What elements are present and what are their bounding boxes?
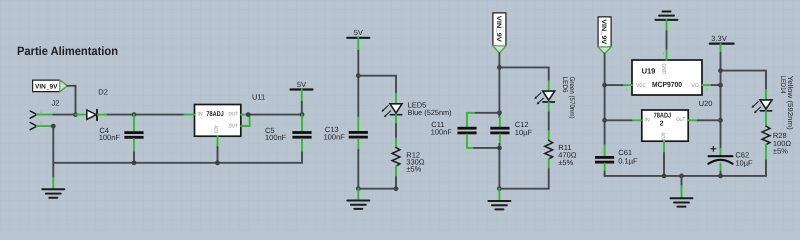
- ground GND J2: [52, 177, 54, 189]
- svg-text:0.1µF: 0.1µF: [618, 156, 638, 165]
- junction (499.4,112.8): [497, 110, 502, 115]
- resistor R28: [762, 126, 791, 160]
- svg-text:5V: 5V: [354, 28, 363, 37]
- wire rail section3: [499, 188, 548, 190]
- junction (396,188.7): [394, 186, 399, 191]
- junction (664,175.9): [662, 174, 667, 179]
- LED14: [752, 76, 796, 130]
- junction (499.4,188.7): [497, 186, 502, 191]
- wire C11 bottom to junction: [474, 147, 499, 149]
- svg-text:Blue (525nm): Blue (525nm): [408, 108, 452, 117]
- junction (358.3,75.7): [356, 73, 361, 78]
- junction (720.5,175.9): [718, 174, 723, 179]
- wire LED6 to R11: [548, 113, 550, 132]
- wire VIN_9V to node: [67, 86, 75, 115]
- LED6: [534, 77, 575, 119]
- LED5: [382, 94, 453, 124]
- resistor R12: [392, 138, 425, 177]
- svg-text:IN: IN: [197, 112, 202, 118]
- svg-text:10µF: 10µF: [735, 159, 753, 168]
- wire branch to LED5: [358, 76, 396, 94]
- svg-text:LED6: LED6: [561, 77, 568, 93]
- wire branch to LED14: [721, 71, 767, 90]
- wire C13 branch down: [357, 76, 359, 118]
- junction (53.3,126.1): [51, 124, 56, 129]
- svg-text:±5%: ±5%: [773, 147, 788, 156]
- wire R12 to rail: [395, 177, 397, 189]
- wire U20 OUT: [698, 119, 721, 121]
- wire U20 ADJ down: [663, 153, 665, 176]
- wire 5V to junction: [357, 51, 359, 76]
- svg-text:VO: VO: [691, 83, 699, 89]
- wire 3.3V down to C62: [720, 53, 722, 149]
- svg-text:100nF: 100nF: [431, 127, 453, 136]
- svg-text:MCP9700: MCP9700: [652, 80, 682, 89]
- capacitor C12: [490, 117, 532, 144]
- svg-text:5V: 5V: [297, 80, 306, 89]
- svg-text:OUT: OUT: [676, 117, 686, 123]
- sensor U19 MCP9700: [623, 51, 712, 96]
- wire flag down: [604, 54, 606, 146]
- capacitor C4: [99, 115, 144, 163]
- capacitor C13: [324, 118, 368, 189]
- wire down to C11/C12: [498, 67, 500, 117]
- wire VCC to flag line: [605, 84, 623, 86]
- svg-text:78ADJ: 78ADJ: [206, 111, 223, 118]
- junction (681.5,175.9): [679, 174, 684, 179]
- svg-text:100nF: 100nF: [99, 133, 121, 142]
- svg-text:78ADJ: 78ADJ: [654, 113, 672, 120]
- global label VIN_9V (vertical, section 4): [598, 17, 611, 54]
- connector J2: [30, 99, 59, 130]
- svg-text:IN: IN: [644, 117, 649, 123]
- capacitor C5: [265, 115, 312, 163]
- svg-text:±5%: ±5%: [406, 164, 421, 173]
- wire U20 IN: [605, 119, 632, 121]
- svg-text:Yellow (592nm): Yellow (592nm): [786, 76, 795, 130]
- wire LED5 to R12: [395, 124, 397, 138]
- wire D2 to U11: [108, 114, 185, 116]
- svg-text:LED14: LED14: [779, 76, 786, 94]
- wire rail middle: [358, 188, 396, 190]
- junction (499.4,67.4): [497, 65, 502, 70]
- junction (499.4,147.9): [497, 146, 502, 151]
- wire R11 to rail: [548, 169, 550, 189]
- wire branch to LED6: [499, 67, 548, 81]
- svg-text:100nF: 100nF: [324, 133, 346, 142]
- junction (134,162.8): [132, 160, 137, 165]
- svg-text:VIN_9V: VIN_9V: [600, 19, 607, 45]
- wire 5V down: [301, 102, 303, 115]
- wire bottom rail left: [53, 162, 302, 164]
- svg-text:10µF: 10µF: [515, 128, 533, 137]
- wire flag to junction: [498, 53, 500, 67]
- svg-text:Partie Alimentation: Partie Alimentation: [17, 44, 118, 58]
- wire U11 ADJ down: [217, 147, 219, 163]
- power symbol 3.3V: [710, 34, 734, 53]
- wire J2 pin1 to node: [53, 114, 75, 116]
- capacitor C61: [595, 145, 638, 176]
- junction (217.5,162.8): [215, 160, 220, 165]
- svg-text:ADJ: ADJ: [660, 132, 666, 140]
- junction (720.5,120.3): [718, 118, 723, 123]
- svg-text:GND: GND: [661, 64, 667, 75]
- wire top ground to U19: [666, 31, 668, 51]
- ground (inverted, top): [656, 12, 678, 32]
- svg-text:U19: U19: [642, 67, 656, 76]
- svg-text:U20: U20: [699, 99, 713, 108]
- ground GND middle: [357, 189, 359, 201]
- power symbol 5V (middle): [347, 28, 369, 50]
- regulator U11 78ADJ: [185, 92, 266, 147]
- ground GND section4: [681, 176, 683, 186]
- svg-text:VIN_9V: VIN_9V: [495, 16, 502, 43]
- svg-text:OUT: OUT: [229, 123, 239, 129]
- capacitor C11: [431, 113, 477, 148]
- capacitor C62 (polarized): [708, 146, 753, 176]
- wire R28 to rail: [765, 161, 767, 176]
- svg-text:OUT: OUT: [229, 112, 239, 118]
- wire U11 OUT to C5/5V: [250, 114, 302, 116]
- wire VO to 3.3V line: [712, 84, 721, 86]
- wire branch to C11: [474, 112, 499, 114]
- svg-text:Green (570nm): Green (570nm): [568, 77, 575, 119]
- junction (604.6,85.1): [602, 83, 607, 88]
- svg-text:100nF: 100nF: [265, 133, 287, 142]
- junction (302,114.6): [300, 112, 305, 117]
- ground GND section3: [498, 189, 500, 201]
- svg-text:U11: U11: [252, 92, 265, 101]
- resistor R11: [545, 131, 577, 169]
- svg-text:VCC: VCC: [636, 83, 646, 89]
- svg-text:ADJ: ADJ: [213, 125, 219, 133]
- svg-text:VIN_9V: VIN_9V: [35, 83, 58, 90]
- svg-text:±5%: ±5%: [558, 158, 573, 167]
- junction (604.6,120.3): [602, 118, 607, 123]
- svg-text:3.3V: 3.3V: [711, 34, 726, 43]
- junction (720.5,70.6): [718, 68, 723, 73]
- wire C12 bottom: [498, 144, 500, 189]
- global label VIN_9V (horizontal): [33, 80, 68, 92]
- diode D2: [76, 88, 108, 121]
- power symbol 5V (left): [291, 80, 313, 102]
- global label VIN_9V (vertical, section 3): [493, 13, 506, 53]
- junction (720.5,85.1): [718, 83, 723, 88]
- svg-text:2: 2: [660, 120, 664, 127]
- junction (134,114.6): [132, 112, 137, 117]
- junction node (75.5,114.6): [73, 112, 78, 117]
- junction (248.5,114.6): [246, 112, 251, 117]
- svg-text:D2: D2: [98, 88, 108, 97]
- svg-text:J2: J2: [52, 99, 60, 108]
- junction (358.3,188.7): [356, 186, 361, 191]
- wire bottom rail right: [605, 175, 766, 177]
- regulator U20 78ADJ: [631, 99, 712, 153]
- wire J2 pin2 down: [52, 126, 54, 177]
